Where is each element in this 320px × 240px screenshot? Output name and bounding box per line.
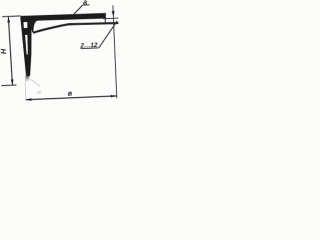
leg inner white sliver lower bbox=[25, 35, 28, 55]
note leader bbox=[98, 21, 118, 48]
B right extension line bbox=[113, 5, 117, 98]
leg fade-out below bbox=[25, 76, 29, 83]
flange (top horizontal thick bar of profile) bbox=[21, 12, 106, 22]
H top extension line bbox=[2, 15, 20, 18]
B left arrow bbox=[26, 98, 32, 101]
scan smudge bbox=[36, 91, 42, 94]
down arrow at toe on extension line bbox=[112, 11, 115, 17]
svg-text:в: в bbox=[67, 89, 72, 98]
toe end face bbox=[105, 13, 106, 23]
svg-text:H: H bbox=[0, 48, 8, 54]
toe thin extension line of flange bottom bbox=[103, 17, 118, 20]
leg inner white sliver bbox=[24, 22, 28, 28]
B left extension (leg edge extended, faint) bbox=[25, 77, 26, 99]
sloped inner flange face line bbox=[33, 22, 119, 33]
B right arrow bbox=[111, 95, 117, 98]
H up arrow bbox=[7, 17, 10, 23]
note shelf bbox=[80, 47, 99, 50]
a leader bbox=[73, 5, 83, 14]
a label shelf bbox=[82, 4, 89, 6]
H down arrow bbox=[11, 79, 14, 85]
leg (vertical web of profile) bbox=[20, 16, 33, 76]
fillet at root bbox=[28, 20, 38, 32]
H dimension line bbox=[8, 17, 12, 85]
H bottom extension line bbox=[1, 84, 16, 87]
B dimension line bbox=[26, 96, 117, 100]
faint diagonal smudge below leg tip bbox=[31, 79, 40, 87]
